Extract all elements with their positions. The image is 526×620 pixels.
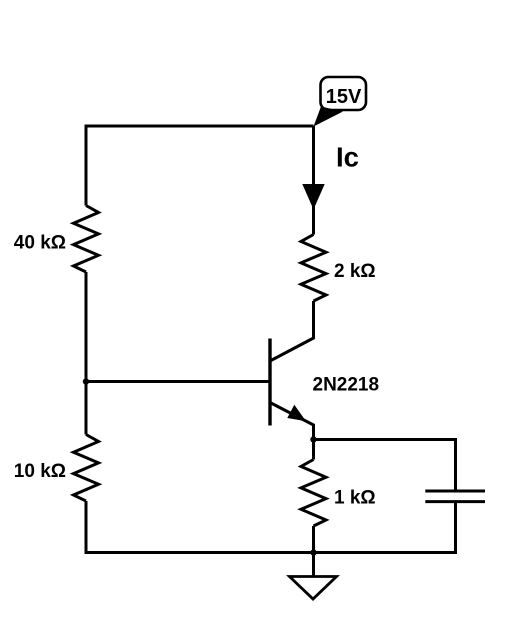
power tag 15V (314, 77, 367, 127)
resistor R1 40 kOhm (74, 206, 99, 273)
node emitter junction (310, 436, 316, 442)
wire emitter node down to 1k (312, 440, 315, 460)
emitter vertical to node (312, 424, 315, 440)
svg-text:1 kΩ: 1 kΩ (334, 488, 376, 509)
svg-text:15V: 15V (326, 86, 362, 108)
resistor R4 1 kOhm (301, 460, 326, 527)
wire left vertical (10k to bottom rail) (85, 501, 88, 554)
node base divider junction (83, 378, 89, 384)
wire bottom rail (85, 551, 456, 554)
wire collector lead down to transistor (312, 301, 315, 338)
ground symbol (290, 577, 337, 600)
svg-text:10 kΩ: 10 kΩ (14, 461, 66, 482)
wire left vertical (40k to base node) (85, 272, 88, 435)
emitter diagonal (269, 402, 315, 426)
svg-text:40 kΩ: 40 kΩ (14, 233, 66, 254)
wire right vertical bottom (capacitor to rail) (454, 502, 457, 554)
wire left vertical (top lead to 40k) (85, 125, 88, 206)
resistor R3 2 kOhm (301, 235, 326, 302)
wire base (divider to transistor) (86, 380, 270, 383)
wire right vertical top (to capacitor) (454, 438, 457, 491)
wire 1k to bottom rail (312, 526, 315, 553)
base bar (268, 339, 271, 426)
wire emitter node to capacitor branch (314, 438, 456, 441)
transistor Q1 2N2218 (269, 338, 315, 441)
wire top horizontal VCC rail (86, 125, 314, 128)
svg-text:2N2218: 2N2218 (313, 375, 380, 396)
svg-text:2 kΩ: 2 kΩ (334, 261, 376, 282)
resistor R2 10 kOhm (74, 435, 99, 502)
capacitor C1 top plate (425, 490, 485, 493)
wire ground stub (312, 553, 315, 577)
svg-text:Ic: Ic (336, 142, 359, 173)
wire collector vertical from VCC (312, 126, 315, 235)
collector diagonal (269, 338, 315, 362)
capacitor C1 bottom plate (425, 500, 485, 503)
node ground junction (310, 549, 316, 555)
current arrow Ic (down) (302, 184, 324, 210)
emitter arrow (287, 405, 306, 422)
